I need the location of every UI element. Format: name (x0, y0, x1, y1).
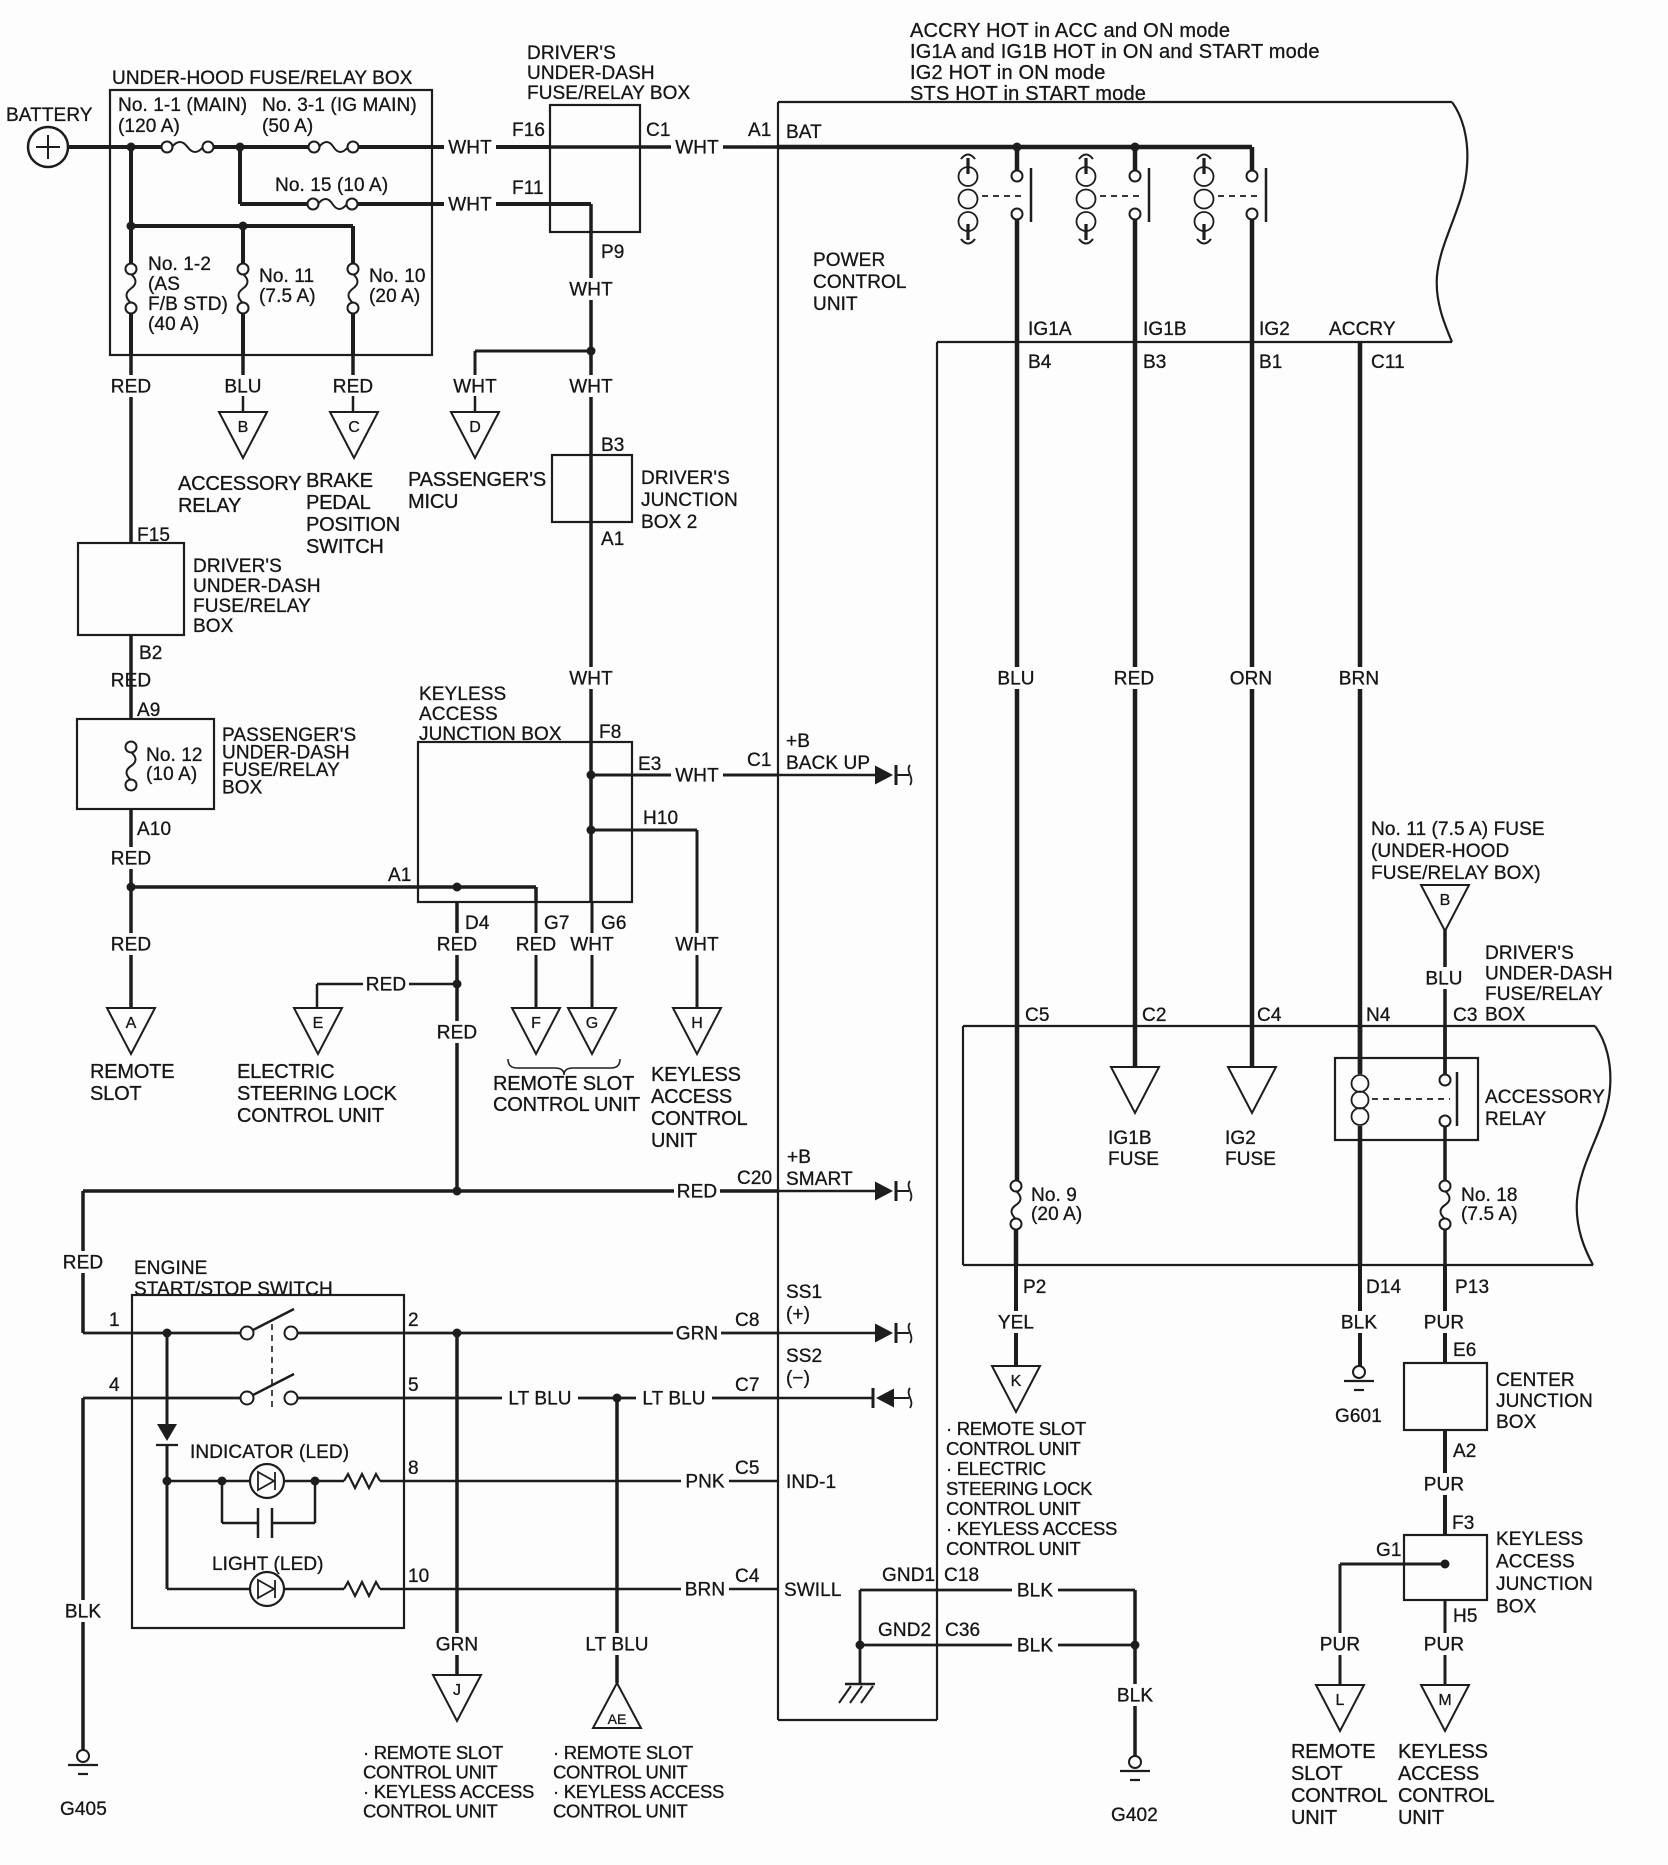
svg-text:D4: D4 (465, 913, 490, 934)
svg-text:CONTROL UNIT: CONTROL UNIT (553, 1801, 687, 1822)
connector L to remote slot control unit (1291, 1685, 1387, 1829)
svg-text:RED: RED (437, 935, 477, 956)
wire WHT H10 (587, 808, 724, 1008)
svg-text:H5: H5 (1453, 1606, 1478, 1627)
driver's under-dash fuse/relay box (top) (527, 43, 691, 232)
wire PUR A2 to F3 (1421, 1430, 1476, 1535)
svg-text:B3: B3 (601, 435, 624, 456)
fuse No. 18 (7.5 A) (1440, 1026, 1518, 1265)
wire WHT to F11 (357, 178, 591, 216)
svg-text:SMART: SMART (786, 1169, 853, 1190)
svg-text:E6: E6 (1453, 1340, 1476, 1361)
pin C8 SS1 (+) (786, 1282, 822, 1325)
svg-text:BLK: BLK (1017, 1636, 1053, 1657)
ground G601 (1335, 1366, 1382, 1427)
connector K (992, 1366, 1040, 1412)
svg-text:UNIT: UNIT (1398, 1807, 1444, 1829)
svg-text:PUR: PUR (1320, 1635, 1360, 1656)
svg-text:G402: G402 (1111, 1805, 1158, 1826)
connector F (512, 1008, 560, 1054)
svg-text:UNDER-HOOD FUSE/RELAY BOX: UNDER-HOOD FUSE/RELAY BOX (112, 68, 413, 89)
svg-text:JUNCTION: JUNCTION (1496, 1574, 1593, 1595)
wire RED G7 to connector F (513, 902, 559, 1008)
wire RED D4 column (434, 902, 480, 1191)
svg-text:RED: RED (111, 935, 151, 956)
svg-text:SS1: SS1 (786, 1282, 822, 1303)
svg-text:C11: C11 (1371, 352, 1405, 373)
svg-text:RED: RED (63, 1253, 103, 1274)
under-hood fuse/relay box (110, 68, 432, 355)
svg-text:C5: C5 (735, 1458, 760, 1479)
svg-text:CONTROL: CONTROL (1398, 1785, 1494, 1807)
svg-text:CONTROL UNIT: CONTROL UNIT (946, 1438, 1080, 1459)
relay IG2 (1195, 147, 1267, 244)
svg-text:10: 10 (408, 1566, 429, 1587)
svg-text:(20 A): (20 A) (369, 286, 420, 307)
svg-text:A: A (126, 1015, 137, 1032)
wire pin 4 to pin 5 SS2 (83, 1375, 778, 1410)
svg-text:No. 9: No. 9 (1031, 1185, 1077, 1206)
svg-text:UNIT: UNIT (813, 294, 858, 315)
wire LT BLU pin 5 to connector AE (579, 1398, 655, 1683)
svg-text:PNK: PNK (685, 1472, 725, 1493)
pin GND1 C18 (882, 1565, 979, 1586)
connector M to keyless access control unit (1398, 1685, 1494, 1829)
svg-text:A1: A1 (748, 120, 771, 141)
svg-text:WHT: WHT (569, 280, 613, 301)
diode +B BACK UP (778, 774, 876, 777)
svg-text:UNDER-DASH: UNDER-DASH (193, 576, 321, 597)
svg-text:LT BLU: LT BLU (642, 1389, 705, 1410)
node G1 (1340, 1540, 1450, 1569)
svg-text:CONTROL UNIT: CONTROL UNIT (237, 1105, 384, 1127)
svg-text:CONTROL UNIT: CONTROL UNIT (363, 1762, 497, 1783)
svg-text:DRIVER'S: DRIVER'S (527, 43, 616, 64)
wire RED B2 F15 (108, 525, 170, 719)
connector E to electric steering lock control unit (237, 1008, 398, 1127)
passenger's under-dash fuse/relay box (77, 700, 356, 809)
keyless access junction box (lower right) (1404, 1529, 1593, 1618)
wire WHT G6 to connector G (566, 902, 618, 1008)
svg-text:PUR: PUR (1424, 1475, 1464, 1496)
svg-text:P9: P9 (601, 242, 624, 263)
svg-text:C1: C1 (747, 750, 772, 771)
wire BLU to accessory relay (220, 355, 266, 412)
wire RED A10 (108, 809, 171, 892)
pin IG1B B3 (1143, 319, 1187, 373)
svg-text:F11: F11 (512, 178, 544, 199)
svg-text:(UNDER-HOOD: (UNDER-HOOD (1371, 841, 1509, 862)
svg-text:RED: RED (516, 935, 556, 956)
svg-text:BLK: BLK (65, 1602, 101, 1623)
wire pin 1 to pin 2 SS1 (83, 1310, 778, 1345)
svg-text:GRN: GRN (436, 1635, 479, 1656)
ground G405 (60, 1750, 107, 1820)
svg-text:JUNCTION: JUNCTION (1496, 1391, 1593, 1412)
fuse No. 3-1 (IG MAIN) (50 A) (262, 95, 417, 153)
svg-text:ACCRY HOT in ACC and ON mode: ACCRY HOT in ACC and ON mode (910, 20, 1230, 42)
power control unit box (778, 102, 1467, 1720)
svg-text:WHT: WHT (675, 935, 719, 956)
svg-text:K: K (1011, 1373, 1022, 1390)
svg-text:B3: B3 (1143, 352, 1166, 373)
svg-text:KEYLESS: KEYLESS (1496, 1529, 1583, 1550)
svg-text:C4: C4 (1257, 1005, 1282, 1026)
svg-text:CONTROL UNIT: CONTROL UNIT (553, 1762, 687, 1783)
wire RED branch to connector E (317, 973, 457, 1008)
svg-text:No. 10: No. 10 (369, 266, 426, 287)
svg-text:STEERING LOCK: STEERING LOCK (946, 1478, 1093, 1499)
svg-text:D: D (469, 419, 481, 436)
svg-text:UNDER-DASH: UNDER-DASH (1485, 964, 1613, 985)
svg-text:G1: G1 (1376, 1540, 1402, 1561)
svg-text:STEERING LOCK: STEERING LOCK (237, 1083, 398, 1105)
svg-text:RELAY: RELAY (178, 495, 241, 517)
svg-text:RED: RED (333, 377, 373, 398)
svg-text:B: B (1440, 892, 1451, 909)
svg-text:IG1B: IG1B (1108, 1128, 1152, 1149)
svg-text:B4: B4 (1028, 352, 1052, 373)
wire ORN IG2 to C4 (1227, 219, 1275, 1067)
svg-text:CENTER: CENTER (1496, 1370, 1575, 1391)
svg-text:C5: C5 (1025, 1005, 1050, 1026)
svg-text:RELAY: RELAY (1485, 1109, 1547, 1130)
svg-text:KEYLESS: KEYLESS (1398, 1741, 1488, 1763)
svg-text:BOX: BOX (193, 616, 234, 637)
svg-text:POWER: POWER (813, 250, 885, 271)
wire RED +B SMART rail (83, 1168, 778, 1203)
svg-text:F8: F8 (599, 722, 621, 743)
pin ACCRY C11 (1329, 319, 1405, 373)
diode +B SMART (778, 1190, 876, 1193)
under-hood bus rail (127, 147, 354, 231)
svg-text:ACCESS: ACCESS (651, 1086, 732, 1108)
svg-text:ACCESS: ACCESS (1398, 1763, 1479, 1785)
svg-text:PASSENGER'S: PASSENGER'S (408, 469, 546, 491)
svg-text:MICU: MICU (408, 491, 458, 513)
svg-text:JUNCTION BOX: JUNCTION BOX (419, 724, 562, 745)
wire RED to F15 (108, 355, 154, 543)
svg-text:PUR: PUR (1424, 1635, 1464, 1656)
accessory relay (lower) (1335, 1026, 1605, 1265)
wire WHT P9 down (565, 204, 624, 356)
pin C20 +B SMART (786, 1147, 853, 1190)
svg-text:(7.5 A): (7.5 A) (259, 286, 316, 307)
connector D to passenger's MICU (408, 412, 546, 513)
svg-text:RED: RED (677, 1182, 717, 1203)
svg-text:CONTROL UNIT: CONTROL UNIT (946, 1498, 1080, 1519)
svg-text:KEYLESS: KEYLESS (651, 1064, 741, 1086)
svg-text:GND1: GND1 (882, 1565, 935, 1586)
svg-text:CONTROL UNIT: CONTROL UNIT (363, 1801, 497, 1822)
svg-text:B: B (238, 419, 249, 436)
svg-text:(120 A): (120 A) (118, 116, 180, 137)
svg-text:BRAKE: BRAKE (306, 470, 373, 492)
engine start/stop switch box (132, 1258, 404, 1628)
svg-text:8: 8 (408, 1458, 419, 1479)
svg-text:PUR: PUR (1424, 1313, 1464, 1334)
connector AE (553, 1683, 724, 1822)
svg-text:No. 3-1 (IG MAIN): No. 3-1 (IG MAIN) (262, 95, 417, 116)
svg-text:ACCESSORY: ACCESSORY (1485, 1087, 1605, 1108)
svg-text:IG2 HOT in ON mode: IG2 HOT in ON mode (910, 62, 1106, 84)
svg-text:C2: C2 (1142, 1005, 1167, 1026)
svg-text:WHT: WHT (570, 935, 614, 956)
svg-text:4: 4 (109, 1375, 120, 1396)
svg-text:A9: A9 (137, 700, 160, 721)
svg-text:ORN: ORN (1230, 669, 1273, 690)
chassis ground in power control unit (839, 1590, 875, 1703)
svg-text:C3: C3 (1453, 1005, 1478, 1026)
svg-text:LT BLU: LT BLU (508, 1389, 571, 1410)
switch contact 2 (241, 1374, 298, 1405)
svg-text:UNDER-DASH: UNDER-DASH (527, 63, 655, 84)
connector B from No. 11 fuse (1421, 885, 1469, 931)
svg-text:BATTERY: BATTERY (6, 105, 93, 126)
svg-text:1: 1 (109, 1310, 120, 1331)
svg-text:IG1B: IG1B (1143, 319, 1187, 340)
svg-text:F/B STD): F/B STD) (148, 294, 228, 315)
svg-text:P2: P2 (1023, 1277, 1046, 1298)
svg-text:IG2: IG2 (1259, 319, 1290, 340)
svg-text:WHT: WHT (569, 669, 613, 690)
svg-text:INDICATOR (LED): INDICATOR (LED) (190, 1442, 349, 1463)
wire RED to brake pedal position switch (330, 355, 376, 412)
fuse No. 1-1 (MAIN) (120 A) (118, 95, 247, 153)
fuse No. 11 (7.5 A) (238, 226, 316, 355)
svg-text:WHT: WHT (453, 377, 497, 398)
wire (213, 145, 314, 149)
svg-text:C20: C20 (737, 1168, 772, 1189)
svg-text:DRIVER'S: DRIVER'S (1485, 943, 1574, 964)
wire WHT to F16 (358, 120, 550, 159)
connector H to keyless access control unit (651, 1008, 747, 1152)
wire RED IG1B to C2 (1111, 219, 1157, 1067)
svg-text:BLU: BLU (997, 669, 1034, 690)
svg-text:BRN: BRN (1339, 669, 1379, 690)
wire BAT rail (778, 122, 1252, 152)
svg-text:J: J (453, 1682, 461, 1699)
svg-text:WHT: WHT (675, 138, 719, 159)
svg-text:JUNCTION: JUNCTION (641, 490, 738, 511)
svg-text:GND2: GND2 (878, 1620, 931, 1641)
svg-text:FUSE: FUSE (1225, 1149, 1276, 1170)
svg-text:CONTROL: CONTROL (1291, 1785, 1387, 1807)
svg-text:ACCESS: ACCESS (1496, 1552, 1575, 1573)
svg-text:BOX: BOX (1485, 1005, 1526, 1026)
wire BLK pin 4 to G405 (60, 1398, 106, 1750)
mechanical link (271, 1324, 273, 1408)
svg-text:C4: C4 (735, 1566, 760, 1587)
svg-text:(40 A): (40 A) (148, 314, 199, 335)
wire WHT E3 to C1 +B BACK UP (587, 750, 779, 787)
fuse No. 15 (10 A) (240, 147, 388, 210)
wire WHT through driver's junction box 2 (565, 351, 624, 743)
svg-text:No. 12: No. 12 (146, 745, 203, 766)
diode SS1 (778, 1332, 876, 1335)
svg-text:5: 5 (408, 1375, 419, 1396)
svg-text:YEL: YEL (998, 1313, 1034, 1334)
svg-text:F16: F16 (512, 120, 545, 141)
svg-text:IG2: IG2 (1225, 1128, 1256, 1149)
svg-text:No. 11: No. 11 (259, 266, 314, 287)
diode in switch (156, 1333, 178, 1589)
svg-text:F: F (531, 1015, 541, 1032)
svg-text:WHT: WHT (675, 766, 719, 787)
svg-text:(20 A): (20 A) (1031, 1204, 1082, 1225)
wire WHT to passenger's MICU (449, 351, 501, 412)
ground G402 (1111, 1756, 1158, 1826)
connector C to brake pedal position switch (306, 412, 400, 558)
svg-text:LT BLU: LT BLU (585, 1635, 648, 1656)
svg-text:A10: A10 (137, 819, 171, 840)
svg-text:H: H (691, 1015, 703, 1032)
svg-text:AE: AE (608, 1711, 627, 1727)
svg-text:· REMOTE SLOT: · REMOTE SLOT (553, 1742, 693, 1763)
driver's under-dash fuse/relay box (lower right) (963, 943, 1613, 1265)
connector A to remote slot (90, 1008, 174, 1105)
svg-text:BLK: BLK (1017, 1581, 1053, 1602)
wire battery to under-hood box (68, 145, 167, 149)
svg-text:BOX: BOX (1496, 1597, 1537, 1618)
pin C7 SS2 (-) (786, 1346, 822, 1389)
diode SS2 (778, 1397, 873, 1400)
driver's junction box 2 (552, 455, 738, 533)
svg-text:WHT: WHT (448, 195, 492, 216)
fuse No. 9 (20 A) (1011, 1181, 1083, 1230)
fuse No. 1-2 (AS F/B STD) (40 A) (126, 226, 228, 355)
pin labels D4 G7 G6 (465, 913, 627, 934)
svg-text:G6: G6 (601, 913, 627, 934)
svg-text:N4: N4 (1366, 1005, 1391, 1026)
capacitor (222, 1481, 315, 1538)
light LED (167, 1554, 778, 1606)
svg-text:C8: C8 (735, 1310, 760, 1331)
svg-text:E: E (313, 1015, 324, 1032)
svg-text:BOX 2: BOX 2 (641, 512, 697, 533)
connector G (568, 1008, 616, 1054)
wire BLU to C3 (1421, 929, 1467, 1080)
svg-text:WHT: WHT (448, 138, 492, 159)
svg-text:A2: A2 (1453, 1441, 1476, 1462)
svg-text:ENGINE: ENGINE (134, 1258, 207, 1279)
fuse No. 10 (20 A) (348, 226, 426, 355)
svg-text:(7.5 A): (7.5 A) (1461, 1204, 1518, 1225)
wire BLU IG1A to C5 (993, 219, 1039, 1181)
IG1B fuse (1108, 1067, 1159, 1170)
svg-text:F3: F3 (1452, 1513, 1474, 1534)
svg-text:CONTROL UNIT: CONTROL UNIT (946, 1538, 1080, 1559)
brace remote slot control unit (508, 1059, 620, 1075)
svg-text:REMOTE SLOT: REMOTE SLOT (493, 1073, 634, 1095)
svg-text:PEDAL: PEDAL (306, 492, 371, 514)
svg-text:RED: RED (111, 377, 151, 398)
svg-text:· REMOTE SLOT: · REMOTE SLOT (363, 1742, 503, 1763)
svg-text:· KEYLESS ACCESS: · KEYLESS ACCESS (363, 1781, 534, 1802)
svg-text:· REMOTE SLOT: · REMOTE SLOT (946, 1418, 1086, 1439)
svg-text:D14: D14 (1366, 1277, 1401, 1298)
svg-text:FUSE/RELAY BOX): FUSE/RELAY BOX) (1371, 863, 1541, 884)
switch contact 1 (241, 1309, 298, 1340)
svg-text:UNIT: UNIT (1291, 1807, 1337, 1829)
wire BLK GND1 (860, 1579, 1135, 1602)
svg-text:ELECTRIC: ELECTRIC (237, 1061, 334, 1083)
svg-text:No. 1-2: No. 1-2 (148, 254, 211, 275)
svg-text:BLU: BLU (224, 377, 261, 398)
svg-text:G601: G601 (1335, 1406, 1382, 1427)
wire RED to engine start/stop switch pin 1 (60, 1191, 106, 1333)
wire GRN pin 2 to connector J (433, 1333, 481, 1675)
svg-text:ACCESS: ACCESS (419, 704, 498, 725)
wire PUR H5 to connector M (1421, 1600, 1478, 1685)
svg-text:CONTROL UNIT: CONTROL UNIT (493, 1094, 640, 1116)
svg-text:H10: H10 (643, 808, 678, 829)
wire BLK GND2 (856, 1634, 1140, 1657)
fuse No. 12 (10 A) (126, 742, 203, 791)
junction (236, 143, 245, 152)
center junction box (1404, 1363, 1593, 1433)
svg-text:(10 A): (10 A) (146, 764, 197, 785)
svg-text:BAT: BAT (786, 122, 822, 143)
IG2 fuse (1225, 1067, 1276, 1170)
svg-text:BACK UP: BACK UP (786, 753, 870, 774)
svg-text:G7: G7 (544, 913, 570, 934)
svg-text:No. 18: No. 18 (1461, 1185, 1518, 1206)
svg-text:(50 A): (50 A) (262, 116, 313, 137)
svg-text:(−): (−) (786, 1368, 810, 1389)
indicator LED (163, 1442, 779, 1498)
pin IG2 B1 (1259, 319, 1290, 373)
svg-text:BOX: BOX (1496, 1412, 1537, 1433)
svg-text:KEYLESS: KEYLESS (419, 684, 506, 705)
svg-text:RED: RED (1114, 669, 1154, 690)
svg-text:BLU: BLU (1425, 969, 1462, 990)
svg-text:ACCRY: ACCRY (1329, 319, 1396, 340)
svg-text:CONTROL: CONTROL (813, 272, 907, 293)
wire BLK D14 to G601 (1336, 1265, 1401, 1366)
svg-text:RED: RED (437, 1023, 477, 1044)
wire WHT branch to connector D (475, 350, 591, 353)
keyless access junction box (418, 684, 632, 902)
svg-text:C7: C7 (735, 1375, 760, 1396)
svg-text:RED: RED (366, 975, 406, 996)
svg-text:2: 2 (408, 1310, 419, 1331)
driver's under-dash fuse/relay box (F15/B2) (78, 543, 321, 637)
svg-text:IG1A: IG1A (1028, 319, 1072, 340)
svg-text:WHT: WHT (569, 377, 613, 398)
pin IG1A B4 (1028, 319, 1072, 373)
svg-text:C18: C18 (944, 1565, 979, 1586)
svg-text:SLOT: SLOT (90, 1083, 141, 1105)
svg-text:B1: B1 (1259, 352, 1282, 373)
svg-text:P13: P13 (1455, 1277, 1489, 1298)
pin GND2 C36 (878, 1620, 980, 1641)
svg-text:CONTROL: CONTROL (651, 1108, 747, 1130)
svg-text:FUSE/RELAY: FUSE/RELAY (1485, 984, 1603, 1005)
svg-text:(AS: (AS (148, 274, 180, 295)
svg-text:SLOT: SLOT (1291, 1763, 1342, 1785)
wire BLK to G402 (1112, 1590, 1158, 1756)
svg-text:· KEYLESS ACCESS: · KEYLESS ACCESS (946, 1518, 1117, 1539)
svg-text:· KEYLESS ACCESS: · KEYLESS ACCESS (553, 1781, 724, 1802)
svg-text:BLK: BLK (1117, 1686, 1153, 1707)
pin C1 +B BACK UP (786, 731, 870, 774)
wire PUR G1 to connector L (1317, 1564, 1363, 1685)
svg-text:M: M (1438, 1692, 1451, 1709)
relay IG1A (959, 147, 1032, 244)
svg-text:REMOTE: REMOTE (90, 1061, 174, 1083)
wire YEL P2 to connector K (993, 1229, 1046, 1366)
